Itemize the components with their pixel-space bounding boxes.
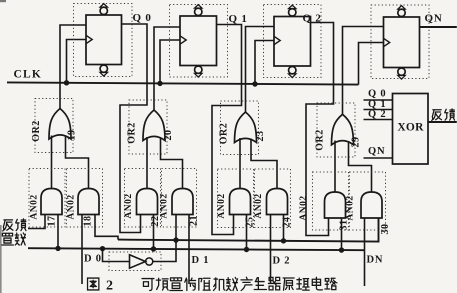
- and-gate dotted box AND21: [162, 169, 197, 228]
- wire OR19 left input from AND17: [51, 136, 53, 189]
- wire CLK riser to FF1 clock: [67, 40, 87, 83]
- svg-text:23: 23: [255, 131, 266, 142]
- svg-text:XOR: XOR: [397, 122, 424, 134]
- wire OR19 output to FF1 D input: [60, 25, 86, 109]
- svg-text:2: 2: [106, 279, 113, 293]
- pin number 24: [282, 217, 293, 228]
- svg-text:D 1: D 1: [192, 255, 210, 266]
- svg-text:OR2: OR2: [219, 123, 230, 145]
- wire CLK riser to FF3 clock: [255, 41, 274, 85]
- wire CLK bus: [7, 82, 359, 84]
- wire AND18 left input to D0: [81, 215, 83, 285]
- wire Q1 from FF2 to AND25 input: [212, 25, 242, 235]
- and-gate AN02 18: [78, 189, 99, 215]
- or-gate dotted box OR20: [129, 100, 167, 154]
- output label Q0: [133, 12, 152, 24]
- label OR2 of gate 29: [315, 129, 326, 151]
- input label DN: [367, 255, 384, 266]
- pin number 30: [380, 224, 391, 235]
- node AND21-invload junction: [173, 237, 178, 242]
- svg-text:OR2: OR2: [127, 122, 138, 144]
- or-gate OR2 29: [332, 114, 354, 145]
- label AN02 of gate 24: [254, 193, 264, 218]
- and-gate dotted box AND30: [350, 172, 386, 230]
- svg-text:AN02: AN02: [160, 193, 170, 218]
- and-gate AN02 17: [41, 189, 62, 215]
- svg-text:D 0: D 0: [84, 254, 102, 265]
- wire OR23 output to FF3 D input: [246, 27, 275, 113]
- svg-text:AN02: AN02: [124, 193, 134, 218]
- svg-text:Q 0: Q 0: [368, 89, 386, 100]
- svg-text:AN02: AN02: [299, 195, 309, 220]
- svg-text:QN: QN: [368, 146, 385, 157]
- pin number 23: [255, 131, 266, 142]
- svg-text:20: 20: [163, 130, 174, 141]
- and-gate AN02 21: [172, 189, 193, 215]
- label OR2 of gate 20: [127, 122, 138, 144]
- wire OR29 output to FF4 D input: [343, 27, 384, 115]
- FF1 clock input triangle: [86, 35, 92, 43]
- net label fankui at XOR output: [432, 109, 455, 121]
- wire zhishu bus to inverter input: [103, 249, 130, 262]
- pin number 17: [47, 216, 58, 227]
- svg-text:OR2: OR2: [315, 129, 326, 151]
- FF2 clock input triangle: [180, 36, 186, 44]
- wire AND22 right input to zhishu bus: [153, 215, 155, 249]
- label AN02 of gate 18: [67, 194, 77, 219]
- node AND31-zhishu junction: [339, 247, 344, 252]
- inverter U5: [130, 255, 153, 268]
- pin number 21: [189, 215, 200, 226]
- flip-flop dotted box FF3: [264, 5, 322, 78]
- and-gate AN02 30: [361, 192, 382, 218]
- inverter dotted box: [109, 252, 161, 271]
- input label D1: [192, 255, 210, 266]
- wire AND21 right input to D1: [188, 215, 190, 285]
- label AN02 of gate 25: [217, 193, 227, 218]
- output label Q2: [303, 13, 322, 25]
- wire AND24 right input to inverted-load bus: [283, 215, 285, 241]
- svg-text:AN02: AN02: [254, 193, 264, 218]
- net label zhishu (load): [2, 233, 26, 245]
- wire AND17 right input to zhishu line: [57, 215, 59, 249]
- wire AND30 left input to DN: [364, 218, 366, 286]
- node AND25-zhishu junction: [244, 247, 249, 252]
- svg-text:18: 18: [83, 216, 94, 227]
- and-gate dotted box AND18: [67, 169, 103, 228]
- wire Q2 from FF3 to AND31 input: [306, 23, 334, 236]
- wire fankui line to AND17 left input: [28, 215, 45, 229]
- node zhishu-inverter junction: [100, 246, 105, 251]
- output label Q1: [229, 13, 248, 25]
- flip-flop FF3: [274, 5, 311, 78]
- input label D2: [273, 256, 291, 267]
- and-gate AN02 24: [267, 189, 288, 215]
- label AN02 of gate 17: [30, 194, 40, 219]
- or-gate dotted box OR19: [35, 99, 73, 153]
- xor block U-XOR: [393, 94, 429, 165]
- wire OR23 left input from AND25: [239, 138, 241, 189]
- wire XOR input Q2: [364, 119, 393, 121]
- or-gate dotted box OR23: [221, 101, 259, 155]
- svg-text:DN: DN: [367, 255, 384, 266]
- label OR2 of gate 23: [219, 123, 230, 145]
- wire AND21 left input to inverted-load bus: [175, 215, 177, 241]
- svg-text:21: 21: [189, 215, 200, 226]
- wire CLK riser to FF2 clock: [160, 40, 180, 83]
- wire OR29 right input from AND30: [349, 141, 372, 192]
- wire AND18 right input to inverted-load bus: [95, 215, 118, 240]
- and-gate dotted box AND25: [218, 169, 254, 228]
- net label CLK: [14, 69, 43, 81]
- label AN02 of gate 21: [160, 193, 170, 218]
- wire Q0 from FF1 to AND22 input: [120, 24, 147, 233]
- wire inverter output to inverted-load bus: [153, 240, 176, 261]
- wire OR23 right input from AND24: [251, 139, 277, 189]
- or-gate OR2 23: [235, 112, 257, 143]
- svg-text:29: 29: [351, 137, 362, 148]
- wire inverted-load bus: [118, 218, 379, 242]
- wire AND25 right input to zhishu bus: [246, 215, 248, 250]
- input label D0: [84, 254, 102, 265]
- wire CLK riser to FF4 clock: [359, 43, 384, 85]
- pin number 22: [150, 216, 161, 227]
- label AN02 of gate 31: [299, 195, 309, 220]
- svg-text:QN: QN: [425, 13, 443, 25]
- flip-flop FF4: [384, 6, 420, 80]
- and-gate dotted box AND24: [255, 169, 291, 228]
- and-gate dotted box AND17: [29, 169, 65, 228]
- flip-flop FF2: [180, 5, 217, 78]
- scan edge artifact: [0, 0, 6, 293]
- caption figure 2 title: [88, 277, 337, 293]
- svg-text:CLK: CLK: [14, 69, 43, 81]
- wire OR19 right input from AND18: [66, 136, 89, 189]
- wire AND31 right input to zhishu bus: [341, 218, 343, 250]
- or-gate OR2 20: [143, 110, 165, 141]
- pin label Q0: [368, 89, 386, 100]
- wire QN output to right edge: [420, 26, 457, 28]
- wire XOR input QN: [364, 157, 393, 159]
- flip-flop dotted box FF4: [371, 5, 429, 79]
- wire OR20 right input from AND21: [161, 138, 183, 189]
- and-gate AN02 31: [325, 192, 346, 218]
- wire zhishu bus: [28, 248, 365, 250]
- svg-text:AN02: AN02: [346, 195, 356, 220]
- svg-text:Q 2: Q 2: [368, 109, 386, 120]
- wire OR20 output to FF2 D input: [154, 27, 180, 110]
- wire AND24 left input to D2: [270, 215, 272, 285]
- pin label QN: [368, 146, 385, 157]
- svg-text:AN02: AN02: [217, 193, 227, 218]
- svg-text:OR2: OR2: [31, 120, 42, 142]
- pin label Q1: [368, 99, 386, 110]
- svg-text:19: 19: [67, 130, 78, 141]
- node CLK-FF2 junction: [157, 81, 162, 86]
- node AND22-zhishu junction: [151, 246, 156, 251]
- svg-text:D 2: D 2: [273, 256, 291, 267]
- and-gate AN02 25: [230, 189, 251, 215]
- wire XOR input Q1: [364, 109, 393, 111]
- node CLK-FF1 junction: [64, 80, 69, 85]
- node CLK-FF3 junction: [252, 81, 257, 86]
- and-gate dotted box AND31: [313, 172, 349, 230]
- wire XOR output feedback: [428, 121, 457, 123]
- pin number 29: [351, 137, 362, 148]
- wire OR20 left input from AND22: [146, 137, 148, 189]
- pin number 31: [339, 220, 350, 231]
- label OR2 of gate 19: [31, 120, 42, 142]
- node AND24-invload junction: [281, 238, 286, 243]
- wire XOR input Q0: [364, 99, 393, 101]
- output label QN: [425, 13, 443, 25]
- svg-text:AN02: AN02: [67, 194, 77, 219]
- pin number 20: [163, 130, 174, 141]
- label AN02 of gate 30: [346, 195, 356, 220]
- FF4 clock input triangle: [384, 38, 390, 46]
- or-gate OR2 19: [49, 109, 71, 140]
- FF3 clock input triangle: [274, 36, 280, 44]
- wire OR29 left input from AND31: [334, 141, 336, 193]
- and-gate dotted box AND22: [125, 169, 161, 228]
- flip-flop FF1: [86, 4, 122, 77]
- flip-flop dotted box FF2: [170, 5, 228, 78]
- svg-text:Q 1: Q 1: [229, 13, 248, 25]
- pin number 19: [67, 130, 78, 141]
- label AN02 of gate 22: [124, 193, 134, 218]
- pin number 25: [245, 217, 256, 228]
- svg-text:30: 30: [380, 224, 391, 235]
- flip-flop dotted box FF1: [74, 4, 133, 77]
- svg-text:AN02: AN02: [30, 194, 40, 219]
- and-gate AN02 22: [137, 189, 158, 215]
- svg-text:17: 17: [47, 216, 58, 227]
- or-gate dotted box OR29: [317, 103, 355, 157]
- pin number 18: [83, 216, 94, 227]
- net label fankui (feedback): [3, 219, 26, 231]
- node AND17-zhishu junction: [55, 246, 60, 251]
- svg-text:Q 0: Q 0: [133, 12, 152, 24]
- pin label Q2: [368, 109, 386, 120]
